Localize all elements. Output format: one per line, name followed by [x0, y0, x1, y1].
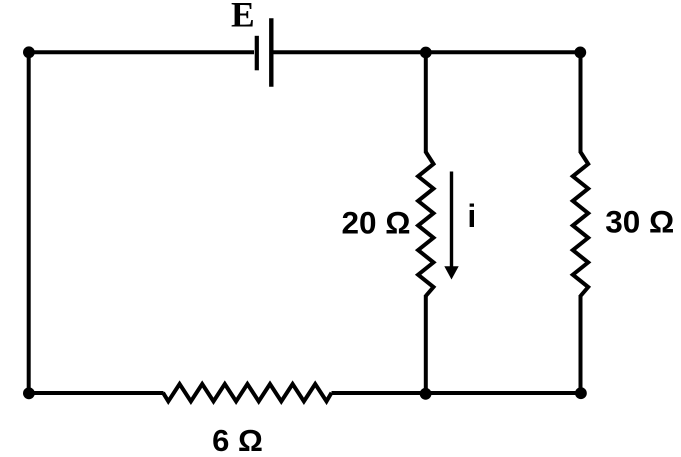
- wire bottom-left (node D to resistor 6): [27, 391, 164, 395]
- wire bottom-right (resistor 6 to node F): [332, 391, 582, 395]
- node bottom-right: [575, 387, 587, 399]
- node top-left: [23, 46, 35, 58]
- battery E short plate (negative): [255, 36, 259, 71]
- svg-text:6 Ω: 6 Ω: [212, 423, 263, 457]
- wire middle branch top stub: [424, 52, 428, 153]
- resistor 20 ohm: [418, 152, 433, 296]
- battery E long plate (positive): [269, 18, 273, 87]
- wire top-right (battery to node C): [274, 50, 581, 54]
- node top-middle: [420, 47, 432, 59]
- current arrow i: [450, 172, 453, 269]
- wire right branch top stub: [579, 52, 583, 153]
- svg-text:30 Ω: 30 Ω: [605, 204, 674, 240]
- resistor 30 ohm: [573, 152, 588, 296]
- node top-right: [574, 47, 586, 59]
- wire middle branch bottom stub: [424, 295, 428, 394]
- svg-text:E: E: [231, 0, 255, 35]
- svg-text:20 Ω: 20 Ω: [341, 205, 410, 241]
- resistor 6 ohm: [163, 384, 332, 401]
- node bottom-middle: [420, 388, 432, 400]
- wire right branch bottom stub: [579, 295, 583, 394]
- wire left side: [27, 52, 31, 393]
- svg-text:i: i: [467, 198, 476, 234]
- node bottom-left: [23, 387, 35, 399]
- wire top-left (node A to battery): [27, 50, 254, 54]
